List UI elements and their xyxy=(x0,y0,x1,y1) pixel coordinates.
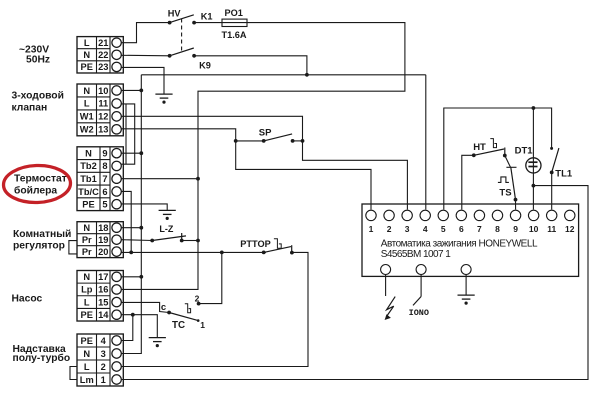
svg-text:15: 15 xyxy=(98,297,108,307)
svg-text:HT: HT xyxy=(473,142,486,153)
U1 terminal circles 1-12 xyxy=(366,210,575,234)
svg-text:Pr: Pr xyxy=(82,247,92,257)
terminal block X1 mains L21 N22 PE23 xyxy=(77,37,123,73)
terminal block X5 pump N17 Lp16 L15 PE14 xyxy=(77,271,123,322)
mechanical link dashed line of HV xyxy=(181,19,183,51)
wire L15 to TC common xyxy=(121,302,169,312)
svg-text:9: 9 xyxy=(102,148,107,158)
svg-text:S4565BM 1007 1: S4565BM 1007 1 xyxy=(381,249,451,260)
svg-text:17: 17 xyxy=(98,272,108,282)
svg-text:Насос: Насос xyxy=(12,294,43,305)
terminal block X3 boiler thermostat N9 Tb2 Tb1 Tb/C PE5 xyxy=(77,147,123,211)
wire Lm1 to DT1 net right side xyxy=(121,186,588,380)
ground G3 (PE14/PE4) xyxy=(149,337,166,339)
wire Pr20 to PTTOP switch xyxy=(121,251,266,253)
svg-text:PE: PE xyxy=(82,200,94,210)
wire Tb1 to L bus xyxy=(121,178,198,180)
wire U1 ground terminal xyxy=(465,275,467,296)
svg-text:W1: W1 xyxy=(80,112,94,122)
svg-text:22: 22 xyxy=(98,50,108,60)
wire PTTOP to L2 xyxy=(121,252,308,366)
svg-text:23: 23 xyxy=(98,62,108,72)
junction DT1 / Lm1 net xyxy=(532,184,536,188)
wire N bus vertical xyxy=(121,75,141,354)
svg-text:Pr: Pr xyxy=(82,235,92,245)
svg-text:L-Z: L-Z xyxy=(159,224,173,234)
junction N bus / N17 xyxy=(121,276,141,278)
svg-text:HV: HV xyxy=(168,8,182,18)
junction N bus / N18 xyxy=(121,227,141,229)
svg-text:6: 6 xyxy=(102,187,107,197)
svg-text:6: 6 xyxy=(459,224,464,234)
svg-text:Tb/C: Tb/C xyxy=(78,187,99,197)
svg-text:K9: K9 xyxy=(199,61,211,71)
wire DT1 through to terminal 10 xyxy=(532,158,534,210)
junction Tb1 / L bus xyxy=(196,177,200,181)
switch HV pole K9 xyxy=(168,54,172,58)
svg-text:5: 5 xyxy=(441,224,446,234)
svg-text:3-ходовой: 3-ходовой xyxy=(12,91,64,102)
svg-text:4: 4 xyxy=(423,224,428,234)
svg-text:7: 7 xyxy=(477,224,482,234)
switch TC blade xyxy=(167,311,171,315)
svg-text:Комнатный: Комнатный xyxy=(13,229,71,240)
wire PE5 to ground xyxy=(121,204,167,211)
wire fuse to right then down (L feed) xyxy=(198,23,405,179)
wire Tb/C down to Pr20 line xyxy=(121,191,131,252)
spark electrode symbol xyxy=(385,275,387,297)
contact 2 of TC xyxy=(197,302,201,306)
svg-text:13: 13 xyxy=(98,125,108,135)
svg-text:10: 10 xyxy=(98,86,108,96)
wire N to box terminal 4 xyxy=(425,75,427,210)
svg-text:Термостат: Термостат xyxy=(14,174,67,185)
svg-text:16: 16 xyxy=(98,285,108,295)
svg-text:L: L xyxy=(84,362,90,372)
svg-text:полу-турбо: полу-турбо xyxy=(13,352,71,364)
thermal actuator hook of HT xyxy=(490,139,496,148)
wire PE23 to ground xyxy=(121,67,164,94)
bracket connector at turbo L2-Lm1 xyxy=(70,367,77,380)
svg-text:K1: K1 xyxy=(201,12,213,22)
svg-text:8: 8 xyxy=(495,224,500,234)
svg-text:12: 12 xyxy=(98,112,108,122)
wire W1 to SP right node xyxy=(121,116,407,209)
wire K1 to fuse PO1 xyxy=(194,22,222,24)
junction N bus / N10 xyxy=(121,89,141,91)
svg-text:Lp: Lp xyxy=(81,285,93,295)
svg-text:19: 19 xyxy=(98,235,108,245)
svg-text:L: L xyxy=(84,99,90,109)
wire TL1 to terminal 11 xyxy=(551,173,553,210)
svg-text:11: 11 xyxy=(547,224,556,234)
wire PE14 to ground and PE4 xyxy=(121,315,157,338)
svg-text:Tb1: Tb1 xyxy=(80,174,97,184)
svg-text:1: 1 xyxy=(200,320,205,330)
node N horizontal wire xyxy=(141,74,426,76)
svg-text:N: N xyxy=(83,223,90,233)
thermal actuator hook of PTTOP xyxy=(274,239,281,249)
svg-text:Lm: Lm xyxy=(80,375,94,385)
svg-text:N: N xyxy=(83,349,90,359)
junction Pr20 / TC branch xyxy=(220,251,224,255)
svg-text:W2: W2 xyxy=(80,125,94,135)
fuse PO1 xyxy=(222,19,247,26)
svg-text:Tb2: Tb2 xyxy=(80,161,97,171)
ground G4 (U1 burner ground) xyxy=(458,294,475,296)
ground G2 (PE5) xyxy=(159,209,176,211)
svg-text:4: 4 xyxy=(101,336,107,346)
svg-text:14: 14 xyxy=(98,310,109,320)
svg-text:TS: TS xyxy=(499,187,511,198)
U1 bottom terminals spark IONO ground xyxy=(381,265,391,275)
ignition controller U1 Honeywell S4565BM box xyxy=(362,204,579,276)
switch SP xyxy=(234,139,238,143)
switch HT xyxy=(472,153,476,157)
svg-text:3: 3 xyxy=(405,224,410,234)
svg-text:N: N xyxy=(83,272,90,282)
switch HV pole K1 xyxy=(168,21,172,25)
svg-text:T1.6A: T1.6A xyxy=(222,30,247,40)
wire W2 to SP left node xyxy=(121,129,371,210)
wire L bus down to Lp16 xyxy=(121,179,198,290)
ground G1 (PE23) xyxy=(155,93,172,95)
switch L-Z xyxy=(150,239,154,243)
svg-text:10: 10 xyxy=(529,224,539,234)
junction SP right / W1 line xyxy=(301,139,305,143)
svg-text:регулятор: регулятор xyxy=(13,241,65,252)
thermal actuator hook of TC xyxy=(185,304,191,313)
svg-text:5: 5 xyxy=(102,200,107,210)
svg-text:9: 9 xyxy=(513,224,518,234)
svg-text:IONO: IONO xyxy=(409,308,429,318)
svg-text:7: 7 xyxy=(102,174,107,184)
wire TC contact2 up to Pr20 line xyxy=(199,252,222,303)
terminal block X2 valve N10 L11 W1 W2 xyxy=(77,84,123,136)
junction PE14 / PE4 branch xyxy=(131,313,135,317)
TS pivot bar xyxy=(506,166,516,168)
svg-text:PE: PE xyxy=(81,310,93,320)
svg-text:12: 12 xyxy=(565,224,575,234)
ionisation electrode IONO xyxy=(420,275,422,297)
switch PTTOP xyxy=(262,251,266,255)
svg-text:1: 1 xyxy=(101,375,106,385)
svg-text:20: 20 xyxy=(98,247,108,257)
svg-text:N: N xyxy=(83,86,90,96)
svg-text:L: L xyxy=(84,38,90,48)
pulse symbol of TS xyxy=(498,177,509,183)
svg-text:3: 3 xyxy=(101,349,106,359)
svg-text:Автоматика зажигания HONEYWELL: Автоматика зажигания HONEYWELL xyxy=(381,239,538,250)
jumper L11 to Tb2 (double rail) xyxy=(121,104,134,164)
wire K9 to N node xyxy=(194,56,307,75)
svg-text:21: 21 xyxy=(98,38,108,48)
svg-text:SP: SP xyxy=(259,127,272,138)
svg-text:N: N xyxy=(83,50,90,60)
red highlight ellipse around boiler thermostat label xyxy=(3,164,71,203)
wire Pr19 to L-Z switch xyxy=(121,239,152,242)
switch TS blade xyxy=(511,167,516,199)
link HT to TS xyxy=(505,156,511,168)
junction N bus / N9 xyxy=(121,152,141,154)
pressure device DT1 xyxy=(526,158,541,173)
wire L21 to HV switch xyxy=(121,23,169,43)
wire DT1 top branch xyxy=(532,108,534,158)
svg-text:L: L xyxy=(84,297,90,307)
svg-text:8: 8 xyxy=(102,161,107,171)
svg-text:PE: PE xyxy=(81,62,93,72)
junction Pr20 / Tb-C xyxy=(129,251,133,255)
switch TL1 xyxy=(550,147,553,150)
svg-text:1: 1 xyxy=(369,224,374,234)
junction K9/N xyxy=(305,73,309,77)
svg-text:2: 2 xyxy=(387,224,392,234)
svg-text:клапан: клапан xyxy=(12,103,48,114)
terminal block X6 turbo PE4 N3 L2 Lm1 xyxy=(77,334,123,386)
svg-text:бойлера: бойлера xyxy=(14,184,57,196)
svg-text:TL1: TL1 xyxy=(555,169,573,180)
wire N22 to K9 switch xyxy=(121,54,169,57)
svg-text:PTTOP: PTTOP xyxy=(240,239,270,249)
svg-text:2: 2 xyxy=(101,362,106,372)
wire terminal5 top line xyxy=(444,108,552,210)
terminal block X4 room regulator N18 Pr19 Pr20 xyxy=(77,222,123,258)
svg-text:18: 18 xyxy=(98,223,108,233)
junction DT1 top xyxy=(532,106,536,110)
svg-text:N: N xyxy=(85,148,92,158)
svg-text:50Hz: 50Hz xyxy=(26,55,50,66)
wire TS to terminal 9 xyxy=(515,200,517,210)
svg-text:11: 11 xyxy=(98,99,108,109)
svg-text:PO1: PO1 xyxy=(225,8,243,18)
svg-text:c: c xyxy=(161,302,166,313)
junction L-Z / L bus xyxy=(196,239,200,243)
svg-text:PE: PE xyxy=(81,336,93,346)
bracket connector at room regulator Pr19-Pr20 xyxy=(69,241,77,254)
wire terminal6 to HT xyxy=(462,155,474,209)
svg-text:DT1: DT1 xyxy=(515,146,534,157)
svg-text:TC: TC xyxy=(172,320,185,331)
